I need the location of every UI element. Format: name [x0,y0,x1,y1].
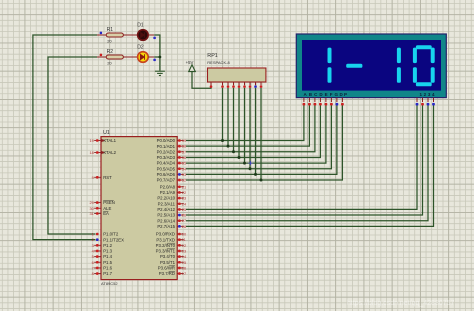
svg-text:32: 32 [182,178,186,183]
pin P3.3 (13) [177,250,184,252]
wire net R1 to P1.1 [33,35,97,240]
svg-text:12: 12 [182,243,186,248]
LED D2 [137,45,156,63]
pin P1.6 (7) [94,267,101,269]
pin P0.3 (36) [177,156,184,158]
svg-text:6: 6 [92,260,94,265]
wire net P0.6 to segment G [186,106,337,175]
pin P0.6 (33) [177,173,184,175]
pin P3.7 (17) [177,273,184,275]
svg-text:AT89C52: AT89C52 [101,281,118,286]
wire net P2.5 to digit 2 [186,106,423,216]
junction node P0.6/RP1 [254,173,257,176]
wire RP1 pin 5 tap [238,88,240,157]
pin P2.2 (23) [177,197,184,199]
svg-text:U1: U1 [103,130,110,136]
svg-text:D1: D1 [137,23,144,29]
wire net R2 to P1.0 [48,57,97,234]
junction D2/ground node [159,56,162,59]
svg-text:21: 21 [182,184,186,189]
pin P1.3 (4) [94,250,101,252]
pin P3.0 (10) [177,233,184,235]
+5V power symbol [186,60,196,72]
svg-text:38: 38 [182,144,186,149]
pin P2.1 (22) [177,191,184,193]
pin P0.1 (38) [177,145,184,147]
LED D1 [137,23,156,41]
svg-text:P3.5/T1: P3.5/T1 [160,260,176,265]
svg-text:R1: R1 [107,27,114,33]
svg-text:P0.7/AD7: P0.7/AD7 [157,178,176,183]
svg-text:31: 31 [89,211,93,216]
svg-text:36: 36 [182,155,186,160]
wire RP1 pin 6 tap [244,88,246,163]
resistor R1 [97,27,137,43]
junction node P0.5/RP1 [249,167,252,170]
wire RP1 pin 3 tap [227,88,229,146]
svg-text:39: 39 [182,138,186,143]
svg-text:15: 15 [182,260,186,265]
svg-text:8: 8 [92,271,94,276]
wire RP1 pin 2 tap [222,88,224,141]
svg-text:23: 23 [182,196,186,201]
svg-text:P0.1/AD1: P0.1/AD1 [157,144,176,149]
junction marker (blue cross) [248,161,252,165]
wire net P2.7 to digit 4 [186,106,434,227]
pin P1.1 (2) [96,238,99,241]
pin P2.3 (24) [177,203,184,205]
svg-text:1: 1 [92,232,94,237]
svg-text:https://blog.csdn.net/qq_42880: https://blog.csdn.net/qq_42880757 [347,300,455,307]
svg-text:P0.6/AD6: P0.6/AD6 [157,172,176,177]
pin P0.7 (32) [177,179,184,181]
svg-text:P1.2: P1.2 [103,243,112,248]
pin P0.5 (34) [177,168,184,170]
svg-text:RST: RST [103,175,112,180]
display segment pins A-DP [303,98,344,106]
pin P2.4 (25) [177,208,184,210]
svg-text:P1.0/T2: P1.0/T2 [103,232,119,237]
svg-text:P0.2/AD2: P0.2/AD2 [157,149,176,154]
svg-text:RP1: RP1 [207,53,218,59]
wire net P0.2 to segment C [186,106,315,152]
svg-text:28: 28 [182,224,186,229]
svg-text:P1.4: P1.4 [103,254,112,259]
svg-text:P1.7: P1.7 [103,271,112,276]
svg-text:P3.2/INT0: P3.2/INT0 [156,243,176,248]
pin P0.2 (37) [177,151,184,153]
microcontroller U1 AT89C52 body [101,130,177,286]
junction node P0.3/RP1 [238,156,241,159]
svg-text:18: 18 [89,150,93,155]
ground symbol [155,71,165,75]
wire net P0.0 to segment A [186,106,304,141]
svg-text:P2.1/A9: P2.1/A9 [160,190,176,195]
wire D2 cathode [154,56,160,58]
pin P1.4 (5) [94,256,101,258]
wire RP1 pin 9 tap [260,88,262,180]
svg-text:P2.5/A13: P2.5/A13 [157,213,175,218]
pin P0.4 (35) [177,162,184,164]
junction node P0.0/RP1 [221,139,224,142]
svg-text:3: 3 [92,243,94,248]
svg-text:P0.3/AD3: P0.3/AD3 [157,155,176,160]
svg-text:P3.4/T0: P3.4/T0 [160,254,176,259]
pin P1.2 (3) [94,244,101,246]
wire net P0.7 to segment DP [186,106,342,181]
svg-text:XTAL2: XTAL2 [103,150,116,155]
svg-text:P2.3/A11: P2.3/A11 [158,201,176,206]
svg-text:P2.6/A14: P2.6/A14 [157,218,175,223]
pin PSEN (29) [94,202,101,204]
svg-text:5: 5 [92,254,94,259]
svg-text:2: 2 [92,237,94,242]
svg-text:P1.3: P1.3 [103,249,112,254]
junction node P0.1/RP1 [227,145,230,148]
svg-text:P1.6: P1.6 [103,266,112,271]
display digit 3 segments [397,48,401,83]
svg-text:P3.3/INT1: P3.3/INT1 [156,249,176,254]
svg-text:P0.5/AD5: P0.5/AD5 [157,166,176,171]
junction node P0.7/RP1 [260,179,263,182]
svg-text:27: 27 [182,218,186,223]
pin XTAL2 (18) [94,152,101,154]
svg-text:20: 20 [107,39,112,44]
svg-text:P0.4/AD4: P0.4/AD4 [157,161,176,166]
pin XTAL1 (19) [94,140,101,142]
pin P3.5 (15) [177,261,184,263]
display digit 2 segments [346,64,362,68]
svg-text:11: 11 [182,237,186,242]
svg-text:1234: 1234 [420,92,435,97]
svg-text:P1.5: P1.5 [103,260,112,265]
svg-text:26: 26 [182,213,186,218]
wire net P0.1 to segment B [186,106,309,147]
wire RP1 pin 4 tap [233,88,235,152]
pin P2.5 (26) [177,214,184,216]
junction node P0.4/RP1 [243,162,246,165]
pin P3.6 (16) [177,267,184,269]
svg-text:P2.0/A8: P2.0/A8 [160,184,176,189]
svg-text:XTAL1: XTAL1 [103,138,116,143]
svg-text:R2: R2 [107,49,114,55]
wire net P0.4 to segment E [186,106,326,164]
wire net P2.4 to digit 1 [186,106,417,210]
svg-text:13: 13 [182,248,186,253]
svg-text:P3.0/RXD: P3.0/RXD [156,232,175,237]
display digit 4 segments [413,45,435,86]
svg-text:P1.1/T2EX: P1.1/T2EX [103,237,124,242]
svg-text:35: 35 [182,161,186,166]
wire RP1 pin 7 tap [249,88,251,169]
svg-text:P3.6/WR: P3.6/WR [158,266,175,271]
wire net P0.3 to segment D [186,106,320,158]
svg-text:25: 25 [182,207,186,212]
wire RP1 pin 8 tap [255,88,257,174]
pin RST (9) [94,176,101,178]
svg-text:19: 19 [89,138,93,143]
pin ALE (30) [94,207,101,209]
svg-text:9: 9 [92,175,94,180]
svg-text:D2: D2 [137,45,144,51]
svg-text:17: 17 [182,271,186,276]
resistor R2 [97,49,137,65]
display digit 1 segments [328,48,332,83]
wire D1 cathode to ground [154,35,160,71]
pin P3.1 (11) [177,239,184,241]
svg-text:P2.4/A12: P2.4/A12 [157,207,175,212]
svg-text:29: 29 [89,200,93,205]
pin P2.7 (28) [177,225,184,227]
svg-text:P0.0/AD0: P0.0/AD0 [157,138,176,143]
wire net P2.6 to digit 3 [186,106,428,221]
pin P1.0 (1) [96,233,99,236]
svg-text:P3.7/RD: P3.7/RD [159,271,175,276]
svg-text:RESPACK-8: RESPACK-8 [207,60,230,65]
svg-text:DP: DP [340,92,348,97]
svg-text:22: 22 [182,190,186,195]
pin P0.0 (39) [177,140,184,142]
junction node P0.2/RP1 [232,150,235,153]
resistor pack RP1 RESPACK-8 [207,53,266,88]
pin P2.6 (27) [177,220,184,222]
svg-text:16: 16 [182,265,186,270]
pin EA (31) [94,213,101,215]
4-digit 7-segment display body [296,34,446,98]
svg-text:EA: EA [103,211,109,216]
svg-text:P2.7/A15: P2.7/A15 [157,224,175,229]
pin P2.0 (21) [177,186,184,188]
pin P3.2 (12) [177,244,184,246]
wire net P0.5 to segment F [186,106,331,169]
pin P1.5 (6) [94,261,101,263]
wire +5V to RP1 common pin [192,72,211,89]
svg-text:20: 20 [107,61,112,66]
svg-text:ALE: ALE [103,206,111,211]
display digit pins 1-4 [416,98,435,106]
svg-text:37: 37 [182,149,186,154]
svg-text:P3.1/TXD: P3.1/TXD [156,237,175,242]
svg-text:7: 7 [92,265,94,270]
svg-text:33: 33 [182,172,186,177]
svg-text:PSEN: PSEN [103,200,115,205]
pin P1.7 (8) [94,273,101,275]
svg-text:P2.2/A10: P2.2/A10 [157,196,175,201]
pin P3.4 (14) [177,256,184,258]
